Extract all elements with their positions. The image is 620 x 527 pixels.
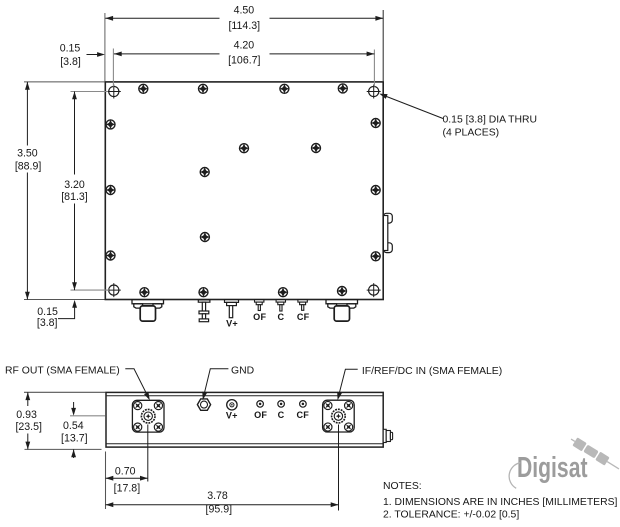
label CF (side view) — [297, 410, 310, 420]
text 4.50 — [234, 5, 255, 17]
GND hex nut — [197, 399, 210, 410]
text 0.54 — [63, 420, 84, 432]
extension line top edge left — [24, 81, 105, 83]
svg-text:[81.3]: [81.3] — [61, 191, 88, 203]
label RF OUT — [5, 365, 120, 376]
svg-text:[3.8]: [3.8] — [60, 56, 81, 68]
CF terminal — [298, 300, 307, 311]
svg-text:(4 PLACES): (4 PLACES) — [443, 128, 500, 139]
dimension 4.50 — [105, 16, 383, 21]
corner hole top-left — [107, 85, 121, 99]
C terminal — [276, 300, 285, 311]
text [3.8] top — [60, 56, 81, 68]
SMA flange side view left (RF OUT) — [132, 400, 164, 432]
svg-text:3.20: 3.20 — [64, 179, 85, 191]
svg-text:3.78: 3.78 — [207, 490, 228, 502]
screw left col 3 — [106, 251, 115, 260]
label GND — [231, 365, 254, 376]
screw interior 1 — [240, 144, 249, 153]
label C (side view) — [278, 410, 285, 420]
screw bottom row 4 — [338, 287, 347, 296]
svg-text:IF/REF/DC IN (SMA FEMALE): IF/REF/DC IN (SMA FEMALE) — [362, 366, 502, 377]
svg-text:4.50: 4.50 — [234, 5, 255, 17]
dimension 3.78 — [106, 502, 339, 507]
extension line hole bottom-left horizontal — [71, 289, 110, 291]
svg-text:[23.5]: [23.5] — [15, 421, 42, 433]
callout leader 0.15 DIA THRU — [379, 94, 443, 119]
OF connector side view — [257, 401, 264, 408]
dimension 3.50 — [25, 82, 30, 300]
SMA connector top view left (RF OUT) — [132, 300, 164, 321]
Digisat logo arc — [509, 463, 520, 489]
text 3.78 — [207, 490, 228, 502]
screw interior 3 — [200, 168, 209, 177]
text 0.15 bottom — [37, 306, 58, 318]
dimension 0.70 — [106, 476, 148, 481]
extension line hole center left — [112, 49, 114, 87]
screw top row 2 — [199, 84, 208, 93]
screw top row 1 — [139, 84, 148, 93]
screw top row 4 — [338, 84, 347, 93]
label OF (top view) — [253, 312, 266, 322]
corner hole bottom-right — [367, 283, 381, 297]
text (4 PLACES) — [443, 128, 500, 139]
screw bottom row 2 — [199, 288, 208, 297]
svg-text:CF: CF — [297, 410, 310, 420]
top view outline — [105, 82, 383, 300]
svg-text:[95.9]: [95.9] — [206, 503, 233, 515]
dimension 0.15 bottom leader — [58, 300, 77, 319]
side view outline — [106, 392, 383, 447]
text [81.3] — [61, 191, 88, 203]
screw interior 2 — [312, 144, 321, 153]
dimension 4.20 — [114, 52, 375, 57]
label V+ (top view) — [226, 318, 238, 328]
dimension 3.20 — [72, 92, 77, 291]
extension line bottom edge left — [24, 299, 105, 301]
svg-text:0.54: 0.54 — [63, 420, 84, 432]
text 3.50 — [17, 148, 38, 160]
V+ feedthrough terminal — [225, 300, 239, 318]
text [23.5] — [15, 421, 42, 433]
screw right col 1 — [371, 119, 380, 128]
svg-text:[3.8]: [3.8] — [37, 317, 58, 329]
Digisat logo text — [517, 452, 588, 484]
svg-text:[13.7]: [13.7] — [61, 433, 88, 445]
extension line sma center left horizontal — [70, 415, 106, 417]
dimension 0.54 — [71, 402, 76, 458]
screw interior 4 — [200, 233, 209, 242]
label IF/REF/DC IN — [362, 366, 502, 377]
corner hole top-right — [367, 85, 381, 99]
stub connector right edge side view — [383, 429, 392, 442]
text [13.7] — [61, 433, 88, 445]
V+ feedthrough side view — [227, 400, 237, 410]
leader RF OUT — [125, 369, 150, 400]
svg-text:C: C — [278, 410, 285, 420]
note 2 — [383, 510, 519, 521]
screw right col 2 — [371, 186, 380, 195]
screw bottom row 1 — [140, 288, 149, 297]
text [17.8] — [114, 482, 141, 494]
text [114.3] — [228, 20, 260, 32]
svg-text:CF: CF — [297, 312, 310, 322]
OF terminal — [255, 300, 264, 311]
CF connector side view — [300, 401, 307, 408]
text 0.70 — [115, 465, 136, 477]
turret terminal — [198, 300, 210, 322]
svg-text:OF: OF — [254, 410, 267, 420]
dimension 0.93 — [25, 392, 30, 449]
text [95.9] — [206, 503, 233, 515]
svg-text:3.50: 3.50 — [17, 148, 38, 160]
screw right col 3 — [371, 252, 380, 261]
text 0.15 top — [60, 42, 81, 54]
screw left col 2 — [106, 186, 115, 195]
leader GND — [202, 369, 228, 400]
note 1 — [383, 497, 618, 508]
svg-text:4.20: 4.20 — [234, 39, 255, 51]
label CF (top view) — [297, 312, 310, 322]
label OF (side view) — [254, 410, 267, 420]
screw top row 3 — [280, 84, 289, 93]
extension line left edge top — [104, 13, 106, 81]
text [88.9] — [15, 161, 42, 173]
extension line side top left — [24, 391, 106, 393]
svg-text:C: C — [278, 312, 285, 322]
leader sma right center vertical — [338, 425, 340, 511]
label V+ (side view) — [226, 411, 238, 421]
svg-text:GND: GND — [231, 365, 254, 376]
svg-text:1. DIMENSIONS ARE IN INCHES [M: 1. DIMENSIONS ARE IN INCHES [MILLIMETERS… — [383, 497, 618, 508]
screw left col 1 — [106, 120, 115, 129]
svg-text:[114.3]: [114.3] — [228, 20, 260, 32]
notes heading — [383, 481, 422, 492]
extension line right edge top — [382, 10, 384, 81]
text [3.8] bottom — [37, 317, 58, 329]
svg-text:2. TOLERANCE: +/-0.02 [0.5]: 2. TOLERANCE: +/-0.02 [0.5] — [383, 510, 519, 521]
SMA connector top view right (IF) — [326, 300, 358, 321]
screw bottom row 3 — [279, 288, 288, 297]
svg-text:0.70: 0.70 — [115, 465, 136, 477]
Digisat satellite icon — [569, 435, 620, 473]
svg-text:OF: OF — [253, 312, 266, 322]
svg-text:[88.9]: [88.9] — [15, 161, 42, 173]
leader sma left center vertical — [147, 425, 149, 482]
text 0.15 [3.8] DIA THRU — [443, 115, 538, 126]
extension line bottom dims left vertical — [105, 452, 107, 510]
extension line hole top-left horizontal — [71, 91, 109, 93]
text 4.20 — [234, 39, 255, 51]
svg-text:[17.8]: [17.8] — [114, 482, 141, 494]
text 3.20 — [64, 179, 85, 191]
leader IF/REF/DC IN — [337, 369, 358, 400]
extension line side bottom left — [25, 448, 102, 450]
C connector side view — [278, 401, 285, 408]
svg-text:[106.7]: [106.7] — [228, 55, 260, 67]
svg-text:NOTES:: NOTES: — [383, 481, 422, 492]
dimension 0.15 top leader — [87, 52, 105, 57]
svg-text:0.15 [3.8] DIA THRU: 0.15 [3.8] DIA THRU — [443, 115, 538, 126]
label C (top view) — [278, 312, 285, 322]
svg-text:Digisat: Digisat — [517, 452, 588, 484]
svg-text:0.93: 0.93 — [16, 409, 37, 421]
svg-text:RF OUT (SMA FEMALE): RF OUT (SMA FEMALE) — [5, 365, 120, 376]
svg-text:V+: V+ — [226, 318, 238, 328]
text [106.7] — [228, 55, 260, 67]
SMA flange side view right (IF/REF/DC IN) — [323, 400, 355, 432]
corner hole bottom-left — [107, 283, 121, 297]
text 0.93 — [16, 409, 37, 421]
svg-text:0.15: 0.15 — [60, 42, 81, 54]
extension line hole center right — [373, 50, 375, 87]
svg-text:V+: V+ — [226, 411, 238, 421]
handle on right edge — [383, 213, 392, 252]
